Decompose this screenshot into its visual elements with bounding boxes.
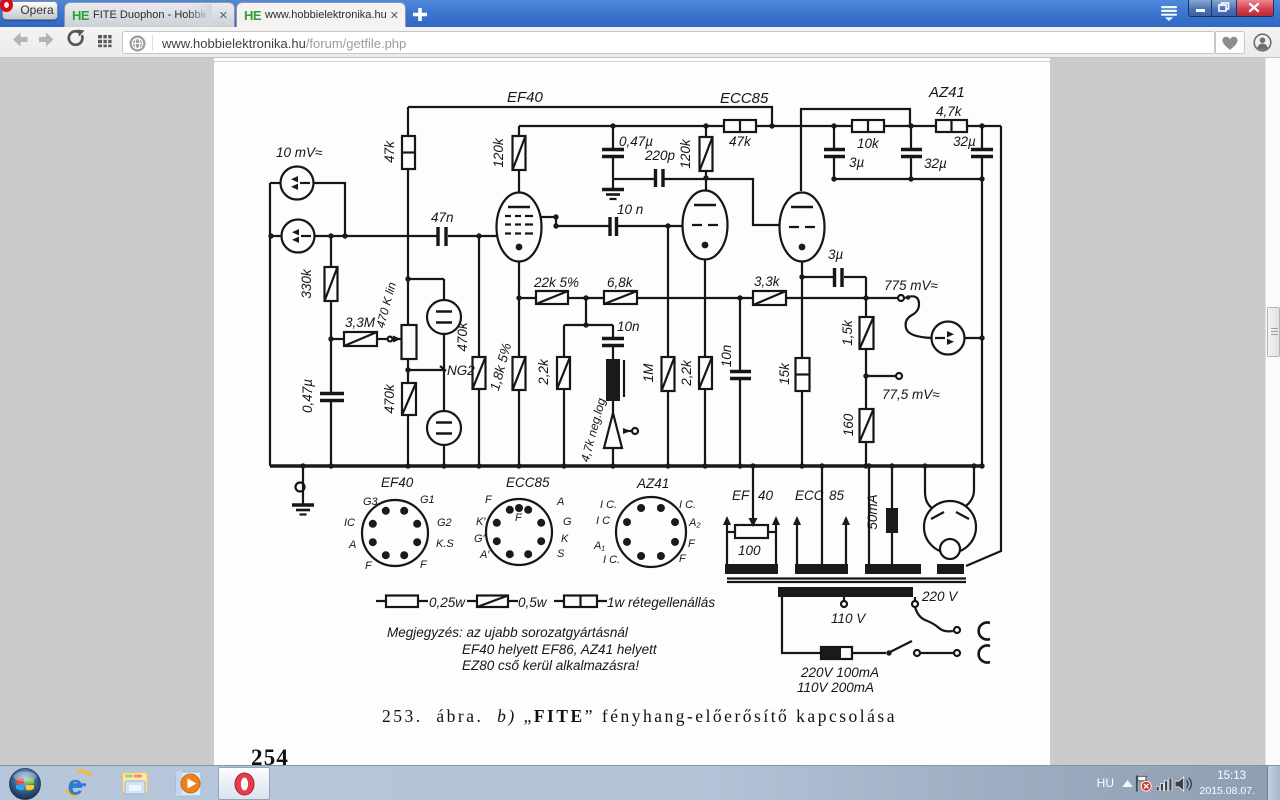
svg-text:F: F — [365, 560, 373, 572]
svg-text:A: A — [348, 539, 356, 551]
svg-text:G3: G3 — [363, 496, 379, 508]
svg-text:1,5k: 1,5k — [840, 319, 855, 346]
svg-text:40: 40 — [758, 488, 774, 503]
svg-text:G1: G1 — [420, 494, 435, 506]
svg-text:A₁: A₁ — [593, 540, 605, 552]
svg-text:1M: 1M — [641, 363, 656, 383]
svg-text:32µ: 32µ — [924, 156, 947, 171]
svg-text:F: F — [679, 553, 687, 565]
svg-text:120k: 120k — [678, 138, 693, 169]
svg-text:ECC: ECC — [795, 488, 824, 503]
svg-text:120k: 120k — [491, 137, 506, 168]
svg-text:2,2k: 2,2k — [679, 359, 694, 387]
svg-text:EF40: EF40 — [381, 475, 414, 490]
svg-text:F: F — [485, 494, 493, 506]
svg-text:220 V: 220 V — [921, 589, 959, 604]
svg-text:A: A — [556, 496, 564, 508]
svg-text:A′: A′ — [479, 549, 490, 561]
svg-text:47n: 47n — [431, 210, 454, 225]
svg-text:100: 100 — [738, 543, 761, 558]
svg-text:F: F — [420, 559, 428, 571]
svg-text:K.S: K.S — [436, 538, 454, 550]
svg-text:EF40 helyett EF86, AZ41 helyet: EF40 helyett EF86, AZ41 helyett — [462, 642, 658, 657]
svg-text:470k: 470k — [455, 321, 470, 352]
svg-text:EF40: EF40 — [507, 89, 544, 106]
svg-text:0,25w: 0,25w — [429, 595, 466, 610]
svg-text:G2: G2 — [437, 517, 452, 529]
svg-text:3,3k: 3,3k — [754, 274, 781, 289]
svg-text:Megjegyzés: az ujabb sorozatgy: Megjegyzés: az ujabb sorozatgyártásnál — [387, 625, 629, 640]
svg-text:0,47µ: 0,47µ — [619, 134, 653, 149]
svg-text:32µ: 32µ — [953, 134, 976, 149]
svg-text:A₂: A₂ — [688, 517, 701, 529]
svg-text:I C.: I C. — [679, 499, 696, 511]
svg-text:220V 100mA: 220V 100mA — [800, 665, 879, 680]
svg-text:AZ41: AZ41 — [928, 84, 965, 101]
svg-text:F: F — [688, 538, 696, 550]
svg-text:G′: G′ — [474, 533, 486, 545]
svg-text:1w rétegellenállás: 1w rétegellenállás — [607, 595, 715, 610]
svg-text:ECC85: ECC85 — [506, 475, 550, 490]
svg-text:K′: K′ — [476, 516, 486, 528]
svg-text:2,2k: 2,2k — [536, 358, 551, 386]
svg-text:254: 254 — [251, 745, 289, 765]
svg-text:S: S — [557, 548, 565, 560]
svg-text:253. ábra. b) „FITE” fényhan: 253. ábra. b) „FITE” fényhang-előerősítő… — [382, 706, 897, 726]
svg-text:I C: I C — [596, 515, 610, 527]
svg-text:775 mV≈: 775 mV≈ — [884, 278, 939, 293]
svg-text:I C.: I C. — [600, 499, 617, 511]
svg-text:IC: IC — [344, 517, 355, 529]
svg-text:4,7k: 4,7k — [936, 104, 963, 119]
svg-text:0,5w: 0,5w — [518, 595, 548, 610]
svg-text:0,47µ: 0,47µ — [300, 379, 315, 413]
svg-text:160: 160 — [841, 413, 856, 436]
svg-text:4,7k neg.log: 4,7k neg.log — [578, 396, 609, 463]
svg-text:10n: 10n — [719, 345, 734, 368]
svg-text:G: G — [563, 516, 572, 528]
svg-text:47k: 47k — [729, 134, 752, 149]
svg-text:10n: 10n — [617, 319, 640, 334]
svg-text:85: 85 — [829, 488, 845, 503]
svg-text:EZ80 cső kerül alkalmazásra!: EZ80 cső kerül alkalmazásra! — [462, 658, 639, 673]
svg-text:77,5 mV≈: 77,5 mV≈ — [882, 387, 940, 402]
svg-text:50mA: 50mA — [865, 494, 880, 529]
svg-text:22k 5%: 22k 5% — [533, 275, 579, 290]
svg-text:3µ: 3µ — [828, 247, 844, 262]
svg-text:ECC85: ECC85 — [720, 90, 769, 107]
svg-text:330k: 330k — [299, 268, 314, 299]
svg-text:3µ: 3µ — [849, 155, 865, 170]
svg-text:1,8k 5%: 1,8k 5% — [487, 341, 514, 392]
svg-text:10 mV≈: 10 mV≈ — [276, 145, 323, 160]
svg-text:470 K lin: 470 K lin — [373, 280, 399, 329]
svg-text:10 n: 10 n — [617, 202, 643, 217]
svg-text:AZ41: AZ41 — [636, 476, 669, 491]
svg-text:110 V: 110 V — [831, 611, 867, 626]
svg-text:47k: 47k — [382, 140, 397, 163]
svg-text:6,8k: 6,8k — [607, 275, 634, 290]
svg-text:K: K — [561, 533, 569, 545]
svg-text:10k: 10k — [857, 136, 880, 151]
svg-text:110V 200mA: 110V 200mA — [797, 680, 874, 695]
svg-text:3,3M: 3,3M — [345, 315, 376, 330]
svg-text:470k: 470k — [382, 383, 397, 414]
svg-text:220p: 220p — [644, 148, 676, 163]
svg-text:I C.: I C. — [603, 554, 620, 566]
svg-text:NG2: NG2 — [447, 363, 475, 378]
svg-text:EF: EF — [732, 488, 750, 503]
svg-text:15k: 15k — [777, 362, 792, 385]
